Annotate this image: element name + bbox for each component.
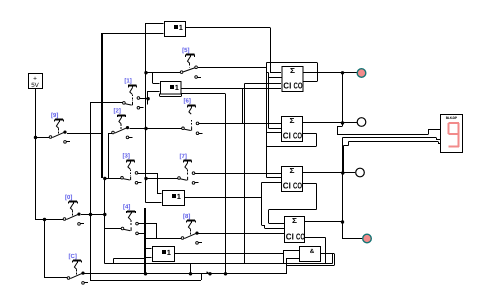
svg-text:[4]: [4]	[123, 203, 130, 210]
svg-text:Σ: Σ	[290, 66, 296, 75]
svg-text:[3]: [3]	[123, 153, 130, 160]
svg-text:[5]: [5]	[182, 47, 189, 54]
svg-text:CO: CO	[296, 231, 305, 241]
svg-text:BLK-DP: BLK-DP	[446, 116, 458, 120]
svg-text:Σ: Σ	[290, 116, 296, 125]
svg-text:CO: CO	[293, 130, 302, 140]
svg-text:[9]: [9]	[51, 112, 58, 119]
svg-text:[7]: [7]	[180, 153, 187, 160]
svg-text:1: 1	[175, 83, 179, 92]
svg-text:[0]: [0]	[65, 194, 72, 201]
svg-text:5V: 5V	[31, 82, 39, 89]
svg-text:CO: CO	[294, 80, 303, 90]
svg-text:CI: CI	[283, 130, 291, 140]
svg-text:CO: CO	[293, 180, 302, 190]
svg-text:1: 1	[167, 248, 171, 257]
svg-text:[C]: [C]	[69, 253, 77, 260]
svg-text:CI: CI	[283, 80, 291, 90]
svg-text:Σ: Σ	[292, 216, 298, 225]
svg-text:[6]: [6]	[184, 98, 191, 105]
svg-text:&: &	[310, 248, 315, 255]
svg-text:CI: CI	[286, 231, 294, 241]
svg-text:1: 1	[179, 23, 183, 32]
svg-text:[2]: [2]	[114, 107, 121, 114]
svg-text:Σ: Σ	[290, 166, 296, 175]
svg-text:CI: CI	[283, 180, 291, 190]
svg-text:1: 1	[177, 192, 181, 201]
svg-text:[8]: [8]	[183, 213, 190, 220]
svg-text:[1]: [1]	[124, 78, 131, 85]
